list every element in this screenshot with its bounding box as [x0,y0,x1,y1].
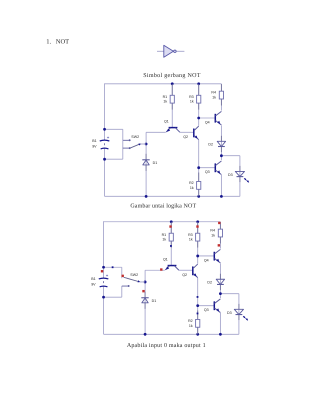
wire node to Q3 base (circuit 2) [198,305,215,307]
battery B1 (circuit 2) [91,273,109,287]
resistor R1 (circuit 1) [170,84,174,110]
pin voltage indicators, logic-high red (circuit 2) [101,222,221,293]
svg-text:Q1: Q1 [164,119,169,123]
wire Q2 emitter down to node (circuit 2) [197,278,199,306]
wire LED branch vertical (circuit 1) [239,156,241,197]
wire battery minus to switch throw 2 (circuit 1) [105,158,123,160]
wire Q1 collector to Q2 base (circuit 1) [180,131,194,133]
wire switch common to Q1 emitter (circuit 1) [145,132,147,144]
wire R1 branch rail to Q1 base (circuit 1) [171,84,173,128]
wire D1 branch (circuit 2) [144,282,146,334]
svg-text:B1: B1 [91,277,95,281]
wire bottom rail (circuit 1) [105,195,240,197]
svg-text:NOT: NOT [56,39,69,46]
wire battery plus to switch throw 1 (circuit 1) [105,128,123,130]
resistor R2 (circuit 1) [197,173,201,197]
svg-text:B1: B1 [92,139,96,143]
node switch common (circuit 2) [144,281,147,284]
resistor R4 (circuit 2) [218,222,222,243]
wire left rail upper (circuit 1) [104,83,106,140]
node rail-R3 (circuit 1) [197,82,200,85]
node Q2 emitter / Q3 base / R2 (circuit 2) [196,304,199,307]
resistor R1 (circuit 2) [169,222,173,248]
svg-text:9V: 9V [91,283,96,287]
node battery plus (circuit 1) [103,128,106,131]
transistor Q2 (circuit 2) [182,264,198,278]
transistor Q2 (circuit 1) [183,126,199,140]
wire node to Q3 base (circuit 1) [199,167,216,169]
svg-text:Q2: Q2 [182,273,187,277]
svg-text:1k: 1k [190,100,194,104]
svg-text:R3: R3 [188,233,193,237]
switch SW2 (circuit 1) [129,135,147,149]
wire node to Q4 base (circuit 2) [198,255,215,257]
wire Q4 emitter through D2 (circuit 2) [219,263,221,293]
transistor Q4 (circuit 2) [204,249,221,263]
wire R3 branch / Q2 collector (circuit 2) [197,222,199,264]
wire Q3 collector (circuit 2) [219,294,221,299]
svg-text:R4: R4 [211,91,216,95]
svg-text:R2: R2 [189,181,194,185]
svg-text:Gambar untai logika NOT: Gambar untai logika NOT [130,203,196,210]
node switch common (circuit 1) [145,143,148,146]
wire D1 branch (circuit 1) [145,144,147,196]
node R2 ground (circuit 1) [197,195,200,198]
svg-text:+: + [107,135,110,140]
NOT gate symbol U1 [157,45,184,57]
node Q2 collector / Q4 base (circuit 1) [197,117,200,120]
wire Q2 emitter down to node (circuit 1) [198,140,200,168]
switch SW2 (circuit 2) [124,273,146,287]
transistor Q1 (circuit 2) [163,257,179,270]
wire R4 branch / Q4 collector (circuit 1) [220,84,222,111]
svg-text:SW2: SW2 [131,135,139,139]
diode D1 (circuit 2) [141,292,156,309]
node rail-R1 (circuit 1) [171,82,174,85]
svg-text:9V: 9V [92,145,97,149]
LED D3 (circuit 1) [228,166,249,183]
svg-text:Simbol gerbang NOT: Simbol gerbang NOT [143,72,200,79]
node battery minus (circuit 1) [103,158,106,161]
wire D2 node to LED branch (circuit 1) [221,155,240,157]
resistor R4 (circuit 1) [219,84,223,105]
wire Q3 collector (circuit 1) [220,156,222,161]
transistor Q3 (circuit 2) [204,299,221,313]
svg-text:SW2: SW2 [130,273,138,277]
wire node to Q4 base (circuit 1) [199,117,216,119]
node Q3 emitter ground (circuit 2) [219,333,222,336]
wire R2 branch (circuit 1) [198,168,200,197]
svg-text:1k: 1k [212,95,216,99]
node battery minus (circuit 2) [102,296,105,299]
svg-text:R3: R3 [189,95,194,99]
svg-text:Q4: Q4 [205,121,210,125]
node D1 ground (circuit 2) [144,333,147,336]
svg-text:Q1: Q1 [163,257,168,261]
transistor Q4 (circuit 1) [205,111,222,125]
wire bottom rail (circuit 2) [104,333,239,335]
diode D2 (circuit 1) [208,136,225,152]
wire switch common to Q1 emitter (circuit 2) [144,270,146,282]
diode D2 (circuit 2) [207,274,224,290]
svg-text:Q2: Q2 [183,135,188,139]
wire R4 branch / Q4 collector (circuit 2) [219,222,221,249]
svg-text:D3: D3 [228,173,233,177]
svg-text:1k: 1k [162,238,166,242]
node rail-R3 (circuit 2) [196,220,199,223]
wire D2 node to LED branch (circuit 2) [220,293,239,295]
wire top power rail (circuit 2) [104,221,221,223]
svg-text:Q3: Q3 [205,170,210,174]
LED D3 (circuit 2) [227,304,248,321]
pin voltage indicators, logic-low navy (circuit 2) [112,245,199,314]
transistor Q3 (circuit 1) [205,161,222,175]
svg-text:D2: D2 [208,143,213,147]
resistor R2 (circuit 2) [196,310,200,334]
svg-text:D1: D1 [152,299,157,303]
node D2 / Q3 collector (circuit 2) [219,292,222,295]
svg-text:R1: R1 [162,233,167,237]
diode D1 (circuit 1) [142,154,157,171]
svg-text:Apabila input 0 maka output 1: Apabila input 0 maka output 1 [127,342,206,349]
wire left rail upper (circuit 2) [103,221,105,278]
node D1 ground (circuit 1) [145,195,148,198]
wire top power rail (circuit 1) [105,83,222,85]
resistor R3 (circuit 2) [196,222,200,248]
wire Q3 emitter to ground (circuit 1) [220,175,222,196]
wire R2 branch (circuit 2) [197,306,199,335]
node R2 ground (circuit 2) [196,333,199,336]
svg-text:R4: R4 [210,229,215,233]
svg-text:R2: R2 [188,319,193,323]
svg-text:1k: 1k [189,238,193,242]
node battery plus (circuit 2) [102,266,105,269]
wire R3 branch / Q2 collector (circuit 1) [198,84,200,126]
wire Q3 emitter to ground (circuit 2) [219,313,221,334]
node Q3 emitter ground (circuit 1) [220,195,223,198]
wire battery minus to switch throw 2 (circuit 2) [104,296,122,298]
wire Q4 emitter through D2 (circuit 1) [220,125,222,155]
svg-text:D1: D1 [153,161,158,165]
svg-text:1.: 1. [46,39,51,46]
svg-text:1k: 1k [211,233,215,237]
svg-text:Q4: Q4 [204,259,209,263]
node Q2 emitter / Q3 base / R2 (circuit 1) [197,166,200,169]
svg-text:Q3: Q3 [204,308,209,312]
resistor R3 (circuit 1) [197,84,201,110]
svg-text:1k: 1k [189,324,193,328]
wire LED branch vertical (circuit 2) [238,294,240,335]
wire Q1 collector to Q2 base (circuit 2) [179,269,193,271]
svg-text:1k: 1k [190,186,194,190]
svg-text:R1: R1 [163,95,168,99]
svg-text:D3: D3 [227,311,232,315]
wire R1 branch rail to Q1 base (circuit 2) [170,222,172,266]
svg-text:+: + [106,273,109,278]
wire left rail lower (circuit 1) [104,149,106,197]
node D2 / Q3 collector (circuit 1) [220,154,223,157]
wire left rail lower (circuit 2) [103,286,105,334]
wire battery plus to switch throw 1 (circuit 2) [104,266,122,268]
svg-text:1k: 1k [163,100,167,104]
transistor Q1 (circuit 1) [164,119,180,132]
node rail-R1 (circuit 2) [170,220,173,223]
battery B1 (circuit 1) [92,135,110,149]
svg-text:D2: D2 [207,281,212,285]
node Q2 collector / Q4 base (circuit 2) [196,255,199,258]
